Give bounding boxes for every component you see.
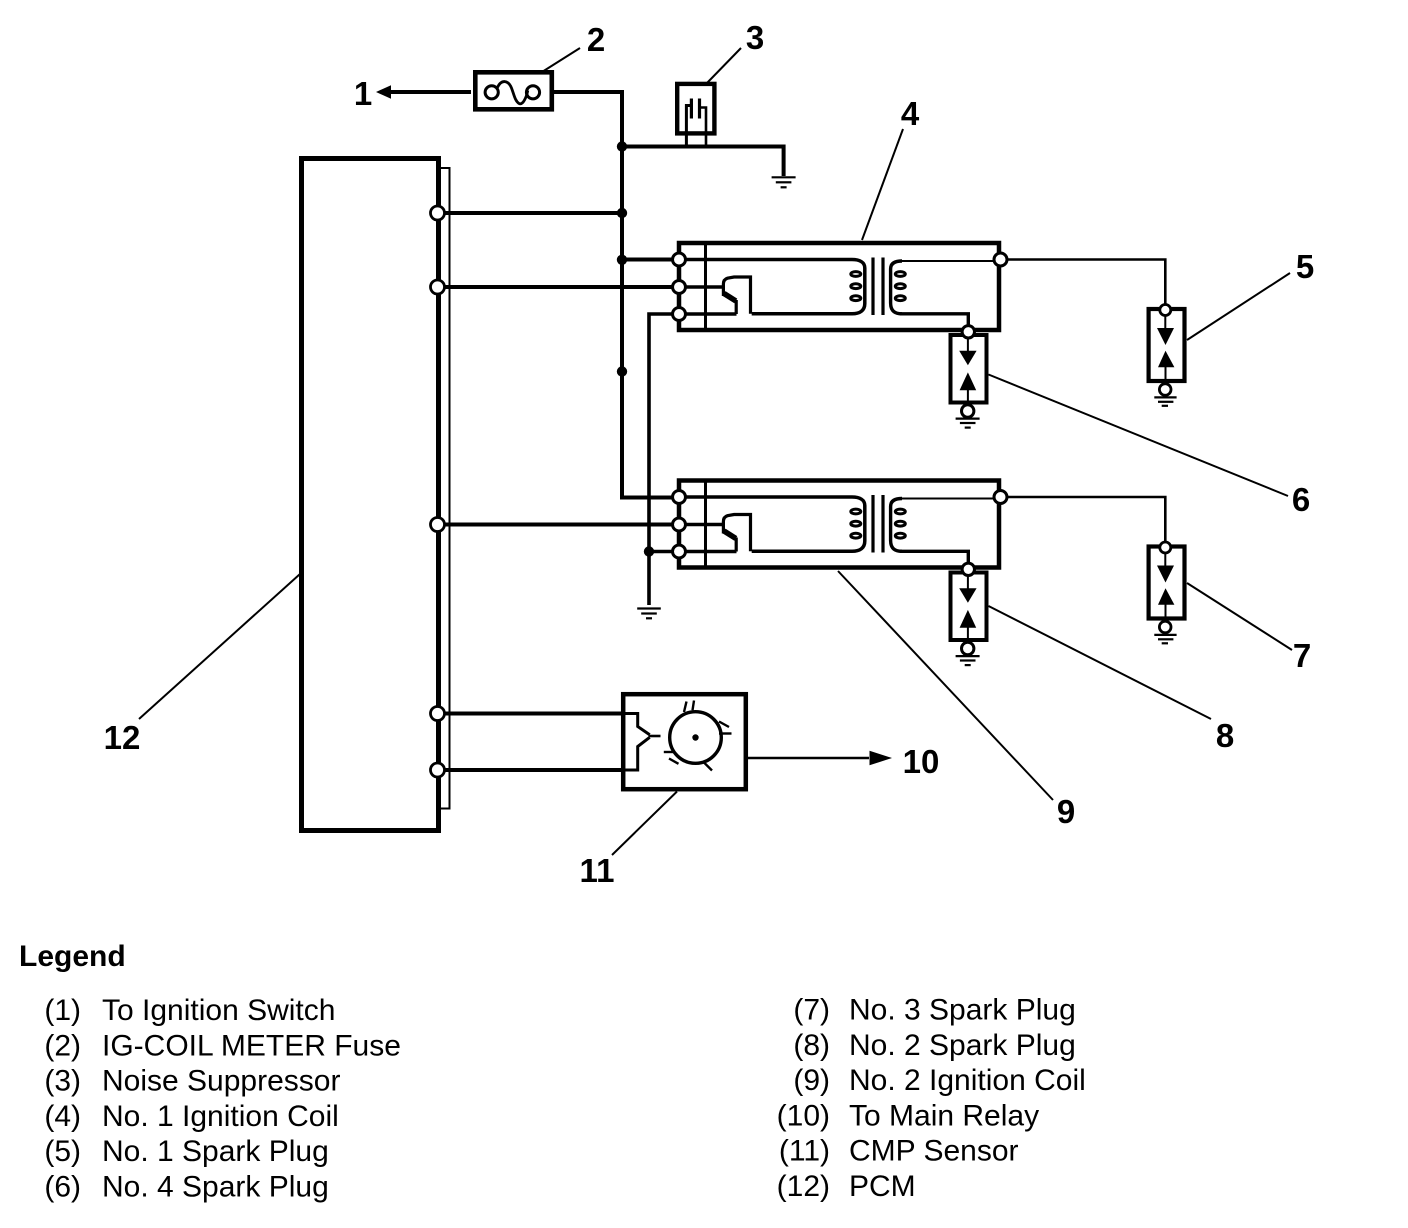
svg-text:No. 4 Spark Plug: No. 4 Spark Plug bbox=[102, 1171, 329, 1204]
coil 2 pin 2 bbox=[673, 518, 686, 531]
coil 1 pin 2 bbox=[673, 281, 686, 294]
coil 1 secondary output pin bbox=[962, 326, 974, 338]
PCM pin 5 bbox=[431, 763, 445, 777]
junction dot suppressor tap bbox=[617, 141, 627, 151]
CMP sensor (item 11) box bbox=[623, 694, 746, 789]
svg-text:8: 8 bbox=[1216, 717, 1234, 754]
svg-text:(1): (1) bbox=[44, 994, 81, 1027]
coil 2 pin 2 wire bbox=[685, 523, 723, 527]
spark gap 6 down triangle bbox=[959, 351, 976, 366]
wire bus to coil 1 pin 1 bbox=[622, 258, 673, 262]
coil 2 pin 1 bbox=[673, 491, 686, 504]
plug 5 up triangle bbox=[1158, 351, 1174, 367]
spark plug No.3 (item 7) box bbox=[1149, 547, 1185, 619]
svg-text:(7): (7) bbox=[793, 994, 830, 1027]
coil 1 high tension pin bbox=[994, 253, 1007, 266]
svg-text:(2): (2) bbox=[44, 1029, 81, 1062]
junction dot coil 1 pin 1 tap bbox=[617, 255, 627, 265]
plug 7 up triangle bbox=[1158, 588, 1174, 604]
junction dot mid bus bbox=[617, 366, 627, 376]
wire to ignition switch bbox=[391, 90, 471, 94]
wire PCM pin 4 to CMP sensor bbox=[444, 712, 623, 716]
svg-text:To Main Relay: To Main Relay bbox=[849, 1099, 1039, 1132]
coil 2 transformer core bbox=[873, 495, 883, 553]
wire fuse to main vertical bus bbox=[554, 90, 622, 94]
CMP pickup tail bbox=[649, 735, 661, 738]
svg-text:CMP Sensor: CMP Sensor bbox=[849, 1135, 1019, 1168]
coil 2 secondary winding bbox=[891, 499, 902, 552]
spark gap 8 up triangle bbox=[960, 610, 977, 628]
coil 2 high tension pin bbox=[994, 491, 1007, 504]
spark gap 8 bottom lead bbox=[967, 628, 969, 641]
coil 1 connector divider line bbox=[704, 241, 707, 332]
spark gap 6 bottom pin bbox=[962, 405, 974, 417]
coil 1 pin 2 wire bbox=[685, 285, 723, 289]
label 4 leader bbox=[862, 129, 903, 240]
junction dot PCM pin 1 tap bbox=[617, 208, 627, 218]
ignition coil U2 (No.2, item 9) box bbox=[679, 481, 999, 568]
svg-text:2: 2 bbox=[587, 21, 605, 58]
PCM pin 4 bbox=[431, 707, 445, 721]
plug 7 top pin bbox=[1160, 542, 1171, 553]
ground below spark gap 8 bbox=[956, 656, 980, 665]
coil 2 igniter emitter lead bbox=[735, 538, 738, 552]
label 12 leader bbox=[139, 574, 300, 719]
wire PCM pin 2 to coil 1 pin 2 bbox=[444, 285, 673, 289]
svg-text:5: 5 bbox=[1296, 248, 1314, 285]
ground below spark gap 6 bbox=[956, 419, 980, 428]
CMP rotor tick bottom right bbox=[704, 763, 712, 771]
wire coil 2 to spark plug 3 bbox=[1007, 497, 1166, 542]
svg-text:4: 4 bbox=[901, 95, 920, 132]
coil 2 secondary top wire bbox=[900, 498, 1001, 500]
coil 1 igniter emitter bbox=[724, 294, 736, 301]
PCM pin 1 bbox=[431, 206, 445, 220]
label 5 leader bbox=[1187, 273, 1290, 340]
spark gap 8 down triangle bbox=[959, 588, 976, 603]
spark plug No.1 (item 5) box bbox=[1149, 309, 1185, 381]
svg-text:6: 6 bbox=[1292, 481, 1310, 518]
PCM box (item 12) bbox=[302, 159, 439, 831]
label 2 leader bbox=[542, 48, 580, 72]
svg-text:No. 1 Spark Plug: No. 1 Spark Plug bbox=[102, 1135, 329, 1168]
plug 5 bottom lead bbox=[1165, 367, 1167, 385]
ground below coil 2 bbox=[637, 609, 661, 619]
CMP rotor tick top left bbox=[684, 702, 687, 713]
coil 1 pin 3 wire bbox=[685, 312, 737, 316]
svg-text:Legend: Legend bbox=[19, 940, 126, 973]
spark gap 8 bottom pin bbox=[962, 642, 974, 654]
coil 2 primary winding bbox=[685, 497, 865, 551]
CMP rotor tick lower left diagonal bbox=[669, 759, 679, 764]
svg-text:12: 12 bbox=[104, 719, 141, 756]
fuse element wave bbox=[498, 82, 528, 104]
coil ground bus wire bbox=[649, 314, 673, 605]
svg-text:(4): (4) bbox=[44, 1100, 81, 1133]
spark gap 6 top lead bbox=[967, 338, 969, 352]
wire coil 1 to spark plug 1 bbox=[1007, 260, 1166, 305]
PCM pin 3 bbox=[431, 518, 445, 532]
noise suppressor element bar left bbox=[690, 99, 693, 119]
spark gap 8 top lead bbox=[967, 576, 969, 590]
svg-text:9: 9 bbox=[1057, 793, 1075, 830]
coil 2 secondary bottom wire bbox=[900, 551, 968, 565]
coil 1 pin 3 bbox=[673, 308, 686, 321]
arrow to main relay bbox=[870, 751, 893, 766]
svg-text:No. 2 Spark Plug: No. 2 Spark Plug bbox=[849, 1029, 1076, 1062]
spark gap No.4 (item 6) box bbox=[951, 335, 987, 403]
coil 2 connector divider line bbox=[704, 479, 707, 570]
coil 1 transformer core bbox=[873, 258, 883, 316]
label 7 leader bbox=[1187, 583, 1292, 650]
wire PCM pin 1 to bus bbox=[444, 211, 622, 215]
label 6 leader bbox=[989, 375, 1289, 497]
spark gap 6 up triangle bbox=[960, 372, 977, 390]
coil 2 secondary output pin bbox=[962, 563, 974, 575]
svg-text:(11): (11) bbox=[779, 1135, 830, 1168]
PCM connector strip bbox=[438, 168, 450, 809]
svg-text:(9): (9) bbox=[793, 1064, 830, 1097]
plug 5 bottom pin bbox=[1159, 384, 1171, 396]
svg-text:1: 1 bbox=[354, 75, 372, 112]
plug 7 top lead bbox=[1164, 553, 1166, 567]
svg-text:IG-COIL METER Fuse: IG-COIL METER Fuse bbox=[102, 1029, 401, 1062]
coil 2 igniter emitter bbox=[724, 531, 736, 538]
svg-text:10: 10 bbox=[903, 743, 940, 780]
noise suppressor element bar right bbox=[698, 99, 701, 119]
coil 2 igniter outline bbox=[723, 515, 750, 552]
svg-text:No. 2 Ignition Coil: No. 2 Ignition Coil bbox=[849, 1064, 1086, 1097]
plug 7 down triangle bbox=[1157, 566, 1174, 583]
svg-text:To Ignition Switch: To Ignition Switch bbox=[102, 994, 335, 1027]
svg-text:No. 3 Spark Plug: No. 3 Spark Plug bbox=[849, 994, 1076, 1027]
ignition coil U1 (No.1, item 4) box bbox=[679, 243, 999, 330]
spark gap No.2 (item 8) box bbox=[951, 573, 987, 641]
ground below noise suppressor wire bbox=[772, 177, 796, 187]
wire PCM pin 5 to CMP sensor bbox=[444, 768, 623, 772]
PCM pin 2 bbox=[431, 280, 445, 294]
svg-text:(8): (8) bbox=[793, 1029, 830, 1062]
svg-text:(5): (5) bbox=[44, 1135, 81, 1168]
CMP rotor center dot bbox=[692, 734, 698, 740]
wire CMP to main relay bbox=[748, 757, 869, 760]
svg-text:(6): (6) bbox=[44, 1171, 81, 1204]
coil 1 secondary winding bbox=[891, 261, 902, 314]
fuse element right circle bbox=[526, 86, 539, 99]
svg-text:(10): (10) bbox=[777, 1099, 830, 1132]
plug 5 top lead bbox=[1164, 315, 1166, 329]
svg-text:Noise Suppressor: Noise Suppressor bbox=[102, 1065, 340, 1098]
svg-text:PCM: PCM bbox=[849, 1170, 916, 1203]
noise suppressor element lead right bbox=[700, 108, 707, 148]
wire PCM pin 3 to coil 2 pin 2 bbox=[444, 523, 673, 527]
label 9 leader bbox=[838, 571, 1053, 800]
fuse F1 IG-COIL METER box bbox=[475, 72, 552, 109]
CMP pickup chevron bottom lead bbox=[623, 737, 650, 770]
ground below plug 7 bbox=[1154, 635, 1176, 643]
plug 7 bottom lead bbox=[1165, 605, 1167, 623]
CMP rotor tick right bbox=[719, 732, 732, 734]
ground below plug 5 bbox=[1154, 397, 1176, 405]
label 11 leader bbox=[612, 792, 677, 856]
plug 5 down triangle bbox=[1157, 328, 1174, 345]
svg-text:11: 11 bbox=[580, 852, 615, 889]
coil 1 secondary top wire bbox=[900, 260, 1001, 262]
svg-text:(12): (12) bbox=[777, 1170, 830, 1203]
CMP rotor tick top bbox=[693, 701, 695, 711]
coil 2 pin 3 bbox=[673, 545, 686, 558]
coil 1 igniter emitter lead bbox=[735, 300, 738, 314]
label 8 leader bbox=[989, 606, 1212, 719]
junction dot coil 2 igniter ground bbox=[644, 546, 654, 556]
coil 1 pin 1 bbox=[673, 253, 686, 266]
svg-text:3: 3 bbox=[746, 19, 764, 56]
noise suppressor element lead left bbox=[686, 106, 691, 148]
wire main vertical bus to coil 2 pin 1 bbox=[622, 90, 673, 498]
label 3 leader bbox=[707, 48, 741, 83]
CMP rotor tick lower left bbox=[664, 751, 675, 753]
arrow to ignition switch bbox=[376, 85, 391, 99]
wire to noise suppressor and ground bbox=[622, 147, 784, 177]
svg-text:(3): (3) bbox=[44, 1065, 81, 1098]
fuse element left circle bbox=[485, 86, 498, 99]
coil 1 primary winding bbox=[685, 260, 865, 314]
spark gap 6 bottom lead bbox=[967, 390, 969, 403]
CMP pickup chevron top lead bbox=[623, 714, 650, 735]
CMP rotor circle bbox=[670, 712, 722, 764]
plug 7 bottom pin bbox=[1159, 621, 1171, 633]
noise suppressor box bbox=[677, 84, 714, 133]
plug 5 top pin bbox=[1160, 305, 1171, 316]
svg-text:7: 7 bbox=[1293, 637, 1311, 674]
svg-text:No. 1 Ignition Coil: No. 1 Ignition Coil bbox=[102, 1100, 339, 1133]
CMP rotor tick upper right bbox=[719, 722, 729, 728]
coil 2 pin 3 wire bbox=[685, 550, 737, 554]
coil 1 igniter outline bbox=[723, 277, 750, 314]
coil 1 secondary bottom wire bbox=[900, 314, 968, 328]
